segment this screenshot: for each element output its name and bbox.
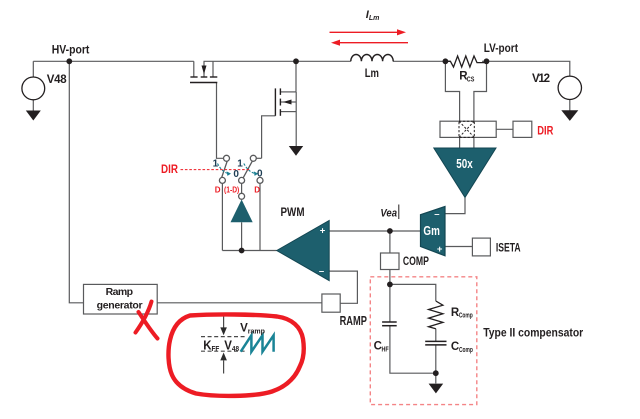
svg-text:(1-D): (1-D) <box>224 185 240 195</box>
svg-text:+: + <box>437 244 443 255</box>
svg-text:Vramp: Vramp <box>240 322 265 335</box>
svg-text:Gm: Gm <box>423 225 439 239</box>
svg-text:0: 0 <box>233 169 239 180</box>
svg-text:D: D <box>254 185 260 194</box>
svg-text:Comp: Comp <box>459 313 473 320</box>
svg-text:KFF: KFF <box>203 338 219 353</box>
svg-text:HF: HF <box>382 346 389 354</box>
svg-text:1: 1 <box>213 158 219 169</box>
svg-text:+: + <box>320 226 326 237</box>
svg-text:V48: V48 <box>224 338 239 353</box>
svg-text:HV-port: HV-port <box>52 44 90 57</box>
svg-text:–: – <box>434 209 439 220</box>
svg-text:1: 1 <box>237 159 243 170</box>
svg-text:PWM: PWM <box>281 206 305 219</box>
svg-text:ISETA: ISETA <box>496 242 521 255</box>
svg-text:C: C <box>374 341 382 353</box>
svg-text:DIR: DIR <box>161 163 178 176</box>
svg-text:D: D <box>215 185 221 194</box>
svg-text:–: – <box>319 266 324 277</box>
svg-text:Vea: Vea <box>380 208 397 220</box>
svg-text:50x: 50x <box>456 158 473 172</box>
svg-text:CS: CS <box>467 76 475 84</box>
svg-text:0: 0 <box>257 168 263 179</box>
svg-text:Ramp: Ramp <box>106 286 133 298</box>
svg-text:Lm: Lm <box>365 67 379 80</box>
svg-text:Comp: Comp <box>459 347 473 354</box>
svg-text:V48: V48 <box>47 74 68 86</box>
svg-text:C: C <box>451 341 459 353</box>
svg-text:LV-port: LV-port <box>484 43 519 56</box>
svg-text:ILm: ILm <box>366 9 380 22</box>
svg-text:COMP: COMP <box>403 256 429 268</box>
svg-text:Type II compensator: Type II compensator <box>483 327 584 340</box>
svg-text:DIR: DIR <box>537 124 553 137</box>
svg-text:RAMP: RAMP <box>340 315 367 329</box>
svg-text:V12: V12 <box>532 73 550 85</box>
svg-text:generator: generator <box>97 300 143 312</box>
